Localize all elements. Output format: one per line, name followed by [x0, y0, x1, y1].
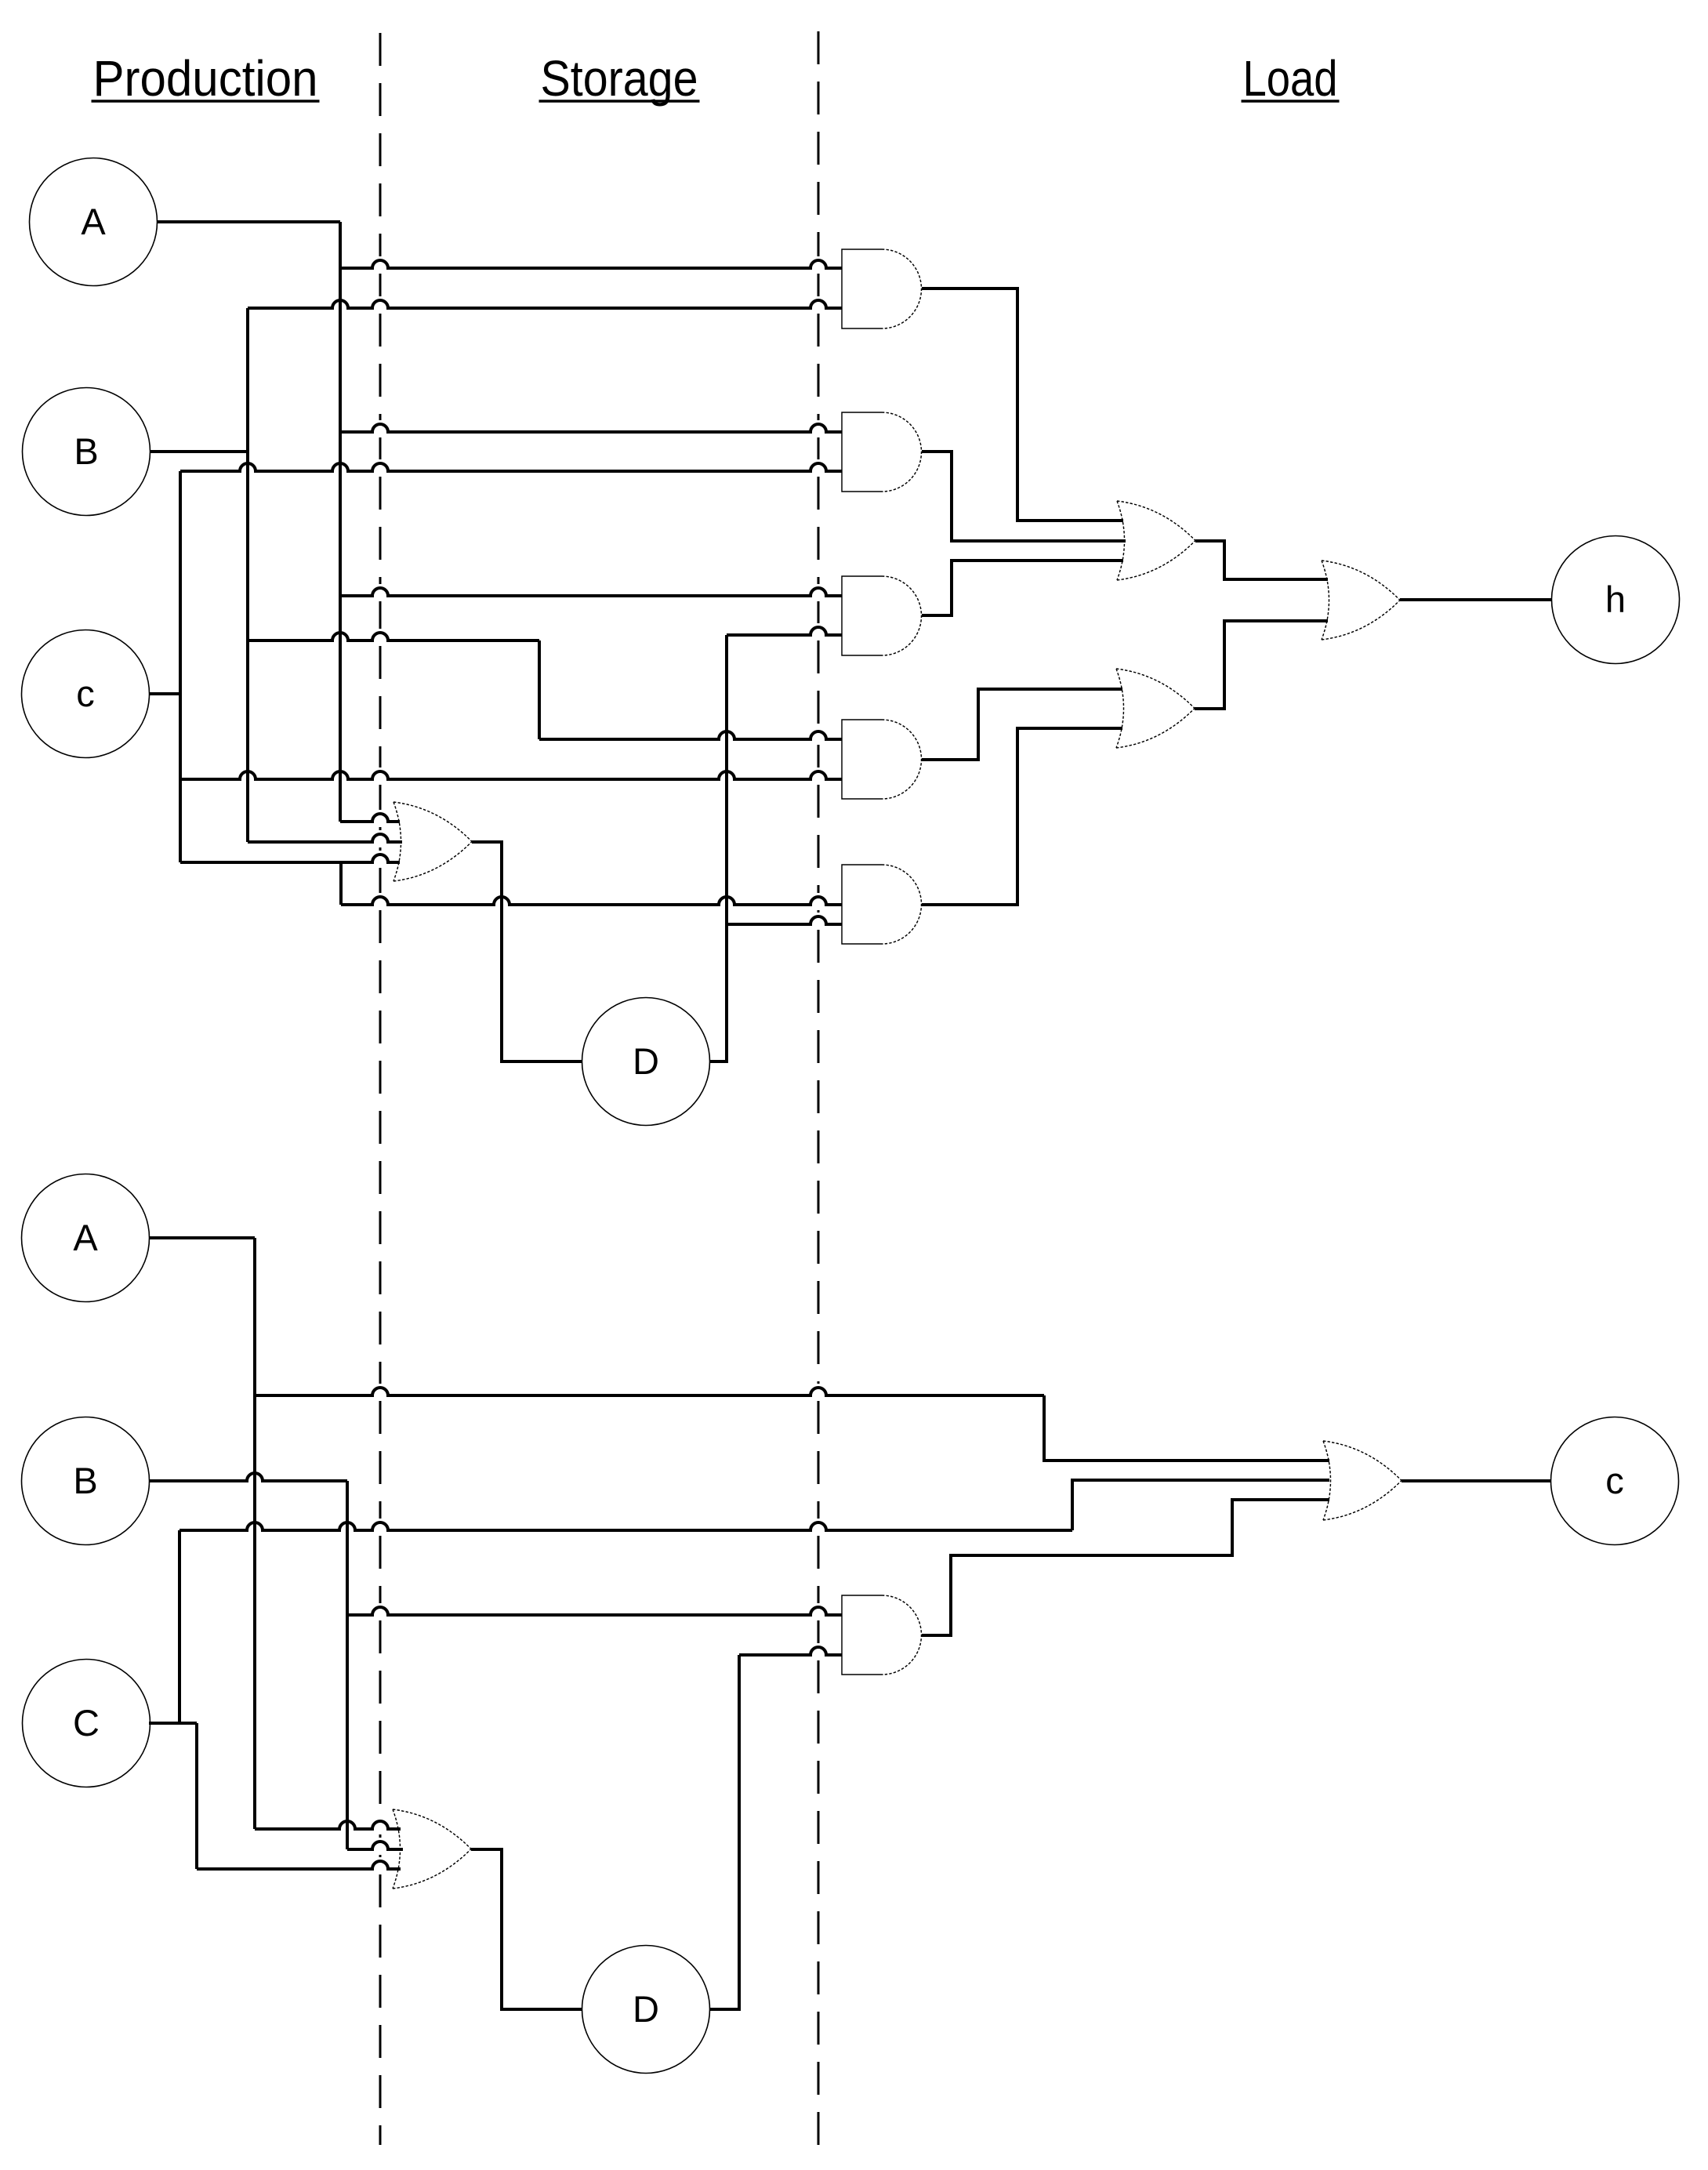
- svg-text:A: A: [81, 201, 106, 242]
- wire U3 output to U7 input 3: [922, 561, 1123, 615]
- wire B1 bus vertical: [246, 308, 249, 842]
- wire c1 to U2 input 2: [180, 463, 842, 471]
- node c (top input): [22, 630, 150, 758]
- wire U10 output to U12 input 3: [922, 1500, 1329, 1635]
- wire U6 output to D1: [472, 842, 582, 1061]
- wire C2 to U12 input 2: [1072, 1480, 1329, 1530]
- AND gate U10 (B AND D): [842, 1595, 882, 1675]
- wire D1 output vertical: [709, 635, 727, 1061]
- wire D2 to U10 input 2: [739, 1647, 842, 1655]
- region boundary dashed line Production/Storage: [379, 33, 382, 256]
- AND gate U1 (A AND B): [842, 249, 882, 328]
- wire A1 to U6 input 1: [340, 814, 400, 822]
- svg-text:D: D: [633, 1040, 659, 1082]
- wire B1 to U6 input 2: [248, 834, 402, 842]
- wire A2 bus vertical: [253, 1238, 256, 1829]
- AND gate U4 (B AND c): [842, 720, 882, 799]
- wire A1 to U2 input 1: [340, 424, 842, 432]
- svg-text:A: A: [73, 1217, 98, 1258]
- OR gate U8 (load OR lower): [1116, 669, 1195, 748]
- wire U11 output to D2: [471, 1849, 582, 2009]
- node B (bottom input): [22, 1417, 150, 1545]
- node D (bottom storage): [582, 1946, 710, 2074]
- wire A1 to U3 input 1: [340, 588, 842, 596]
- wire B2 to U11 input 2: [347, 1842, 403, 1849]
- OR gate U12 (load OR to c): [1323, 1441, 1402, 1520]
- node D (top storage): [582, 998, 710, 1126]
- wire A1 bus vertical: [339, 222, 342, 822]
- wire C2 output: [149, 1722, 197, 1725]
- wire U4 output to U8 input 1: [922, 689, 1122, 760]
- svg-text:Load: Load: [1243, 50, 1338, 107]
- node c (bottom output): [1551, 1417, 1679, 1545]
- wire c1 to U5 input 1: [341, 897, 842, 905]
- node B (top input): [23, 388, 150, 516]
- node h (top output): [1552, 536, 1680, 664]
- wire c1 output: [150, 692, 180, 695]
- wire U5 output to U8 input 2: [922, 728, 1122, 905]
- region boundary dashed line Storage/Load: [818, 31, 820, 256]
- svg-text:h: h: [1605, 579, 1626, 620]
- wire D2 output vertical: [709, 1655, 739, 2009]
- node A (bottom input): [22, 1174, 150, 1302]
- node C (bottom input): [23, 1660, 150, 1787]
- wire D1 to U5 input 2: [727, 916, 842, 924]
- svg-text:C: C: [73, 1702, 100, 1744]
- wire D1 to U3 input 2: [727, 627, 842, 635]
- wire C2 right vertical: [195, 1723, 198, 1869]
- svg-text:c: c: [76, 673, 95, 714]
- AND gate U3 (A AND D): [842, 576, 882, 655]
- wire U1 output to U7 input 1: [922, 288, 1123, 521]
- wire U12 output to c: [1402, 1479, 1551, 1482]
- OR gate U11 (production OR, feeds D): [393, 1809, 471, 1889]
- wire A1 output: [158, 220, 340, 223]
- svg-text:c: c: [1605, 1460, 1624, 1501]
- wire c1 branch vertical to U5: [339, 862, 343, 905]
- wire B1 to U1 input 2: [248, 300, 842, 308]
- wire B2 output: [150, 1473, 347, 1481]
- svg-text:B: B: [74, 430, 98, 472]
- wire B1 to U4 input 1: [539, 731, 842, 739]
- wire A1 to U1 input 1: [340, 260, 842, 268]
- OR gate U6 (production OR, feeds D): [393, 802, 472, 881]
- wire c1 bus vertical: [179, 471, 182, 862]
- svg-text:Production: Production: [93, 50, 318, 107]
- wire B2 to U10 input 1: [347, 1607, 842, 1615]
- wire B1 branch vertical: [538, 640, 541, 739]
- wire A2 output: [150, 1236, 255, 1239]
- svg-text:D: D: [633, 1988, 659, 2030]
- wire U7 output to U9 input 1: [1195, 541, 1328, 579]
- wire C2 load branch: [180, 1522, 1072, 1530]
- wire U8 output to U9 input 2: [1195, 621, 1328, 709]
- wire c1 to U6 input 3: [180, 855, 400, 862]
- wire A2 to U11 input 1: [255, 1821, 401, 1829]
- wire B1 output: [150, 450, 248, 453]
- wire A2 load branch: [255, 1388, 1044, 1395]
- wire C2 up vertical: [178, 1530, 181, 1723]
- OR gate U7 (load OR upper): [1117, 501, 1195, 580]
- svg-text:Storage: Storage: [541, 50, 698, 107]
- wire B1 branch upper: [248, 633, 539, 640]
- node A (top input): [30, 158, 158, 286]
- OR gate U9 (final OR to h): [1322, 561, 1400, 640]
- wire B2 bus vertical: [346, 1481, 349, 1849]
- AND gate U5 (c AND D): [842, 865, 882, 944]
- svg-text:B: B: [73, 1460, 97, 1501]
- wire c1 to U4 input 2: [180, 771, 842, 779]
- wire C2 to U11 input 3: [197, 1861, 401, 1869]
- wire A2 to U12 input 1: [1044, 1395, 1329, 1461]
- AND gate U2 (A AND c): [842, 412, 882, 492]
- wire U9 output to h: [1400, 598, 1552, 601]
- wire U2 output to U7 input 2: [922, 452, 1126, 541]
